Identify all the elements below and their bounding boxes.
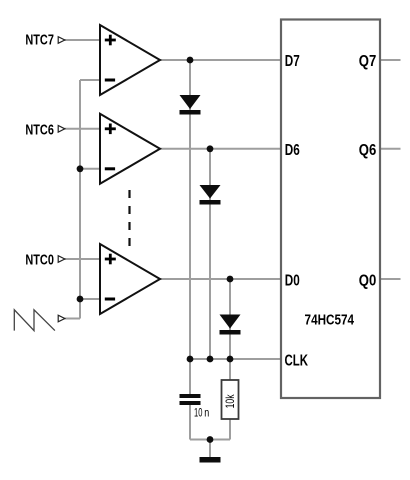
svg-text:NTC6: NTC6 [25,123,54,139]
wire resistor top lead [229,359,231,380]
wire diode D2 branch [209,149,211,359]
resistor R1 10k [222,380,239,419]
node junction ground [207,436,214,443]
op-amp U2 comparator NTC6 [100,114,160,184]
wire Q7 output [380,59,401,61]
wire CLK rail [190,358,280,360]
wire U2 output to D6 [160,148,280,150]
wire U3 output to D0 [160,278,280,280]
svg-text:Q6: Q6 [359,142,377,159]
wire U1 output to D7 [160,59,280,61]
wire NTC0 to U3 + input [65,258,101,260]
wire diode D3 branch [229,279,231,359]
pin triangle NTC0 [58,256,65,263]
wire capacitor top lead [189,359,191,394]
svg-text:n: n [204,406,209,420]
node junction U2 out / D2 [207,145,214,152]
dashed continuation line [128,190,130,246]
node junction U1 out / D1 [187,57,194,64]
pin triangle sawtooth [58,315,65,322]
capacitor C1 10n [180,394,201,405]
wire ground stem [209,440,211,458]
svg-text:Q7: Q7 [359,53,377,70]
svg-text:10: 10 [194,406,203,420]
svg-text:NTC0: NTC0 [25,252,54,268]
IC U4 74HC574 [281,20,380,399]
wire Q6 output [380,148,401,150]
node junction feed bus / U2 - [77,165,84,172]
node junction U3 out / D3 [227,276,234,283]
wire U1 - input stub [80,79,100,81]
node junction CLK / D1 [187,356,194,363]
wire vertical ramp feed bus [79,80,81,319]
svg-text:D7: D7 [285,53,300,70]
node junction CLK / D2 [207,356,214,363]
sawtooth source symbol [14,310,55,331]
wire resistor bottom lead [229,419,231,440]
wire bottom rail [190,439,230,441]
op-amp U3 comparator NTC0 [100,244,160,314]
svg-text:NTC7: NTC7 [25,33,54,49]
svg-text:D0: D0 [285,272,300,289]
svg-text:D6: D6 [285,142,300,159]
node junction feed bus / U3 - [77,296,84,303]
pin triangle NTC7 [58,37,65,44]
ground [200,457,221,463]
wire capacitor bottom lead [189,405,191,440]
svg-text:Q0: Q0 [359,272,377,289]
diode D3 [220,315,241,335]
diode D1 [180,95,201,115]
wire U3 - input stub [80,298,100,300]
svg-text:74HC574: 74HC574 [305,312,355,328]
wire diode D1 branch [189,60,191,359]
pin triangle NTC6 [58,126,65,133]
wire NTC7 to U1 + input [65,39,101,41]
node junction CLK / D3 [227,356,234,363]
wire NTC6 to U2 + input [65,128,101,130]
svg-text:CLK: CLK [285,353,309,370]
svg-text:10k: 10k [223,394,237,409]
wire U2 - input stub [80,168,100,170]
wire sawtooth source to feed bus [65,318,81,320]
diode D2 [200,185,221,205]
wire Q0 output [380,278,401,280]
op-amp U1 comparator NTC7 [100,25,160,95]
